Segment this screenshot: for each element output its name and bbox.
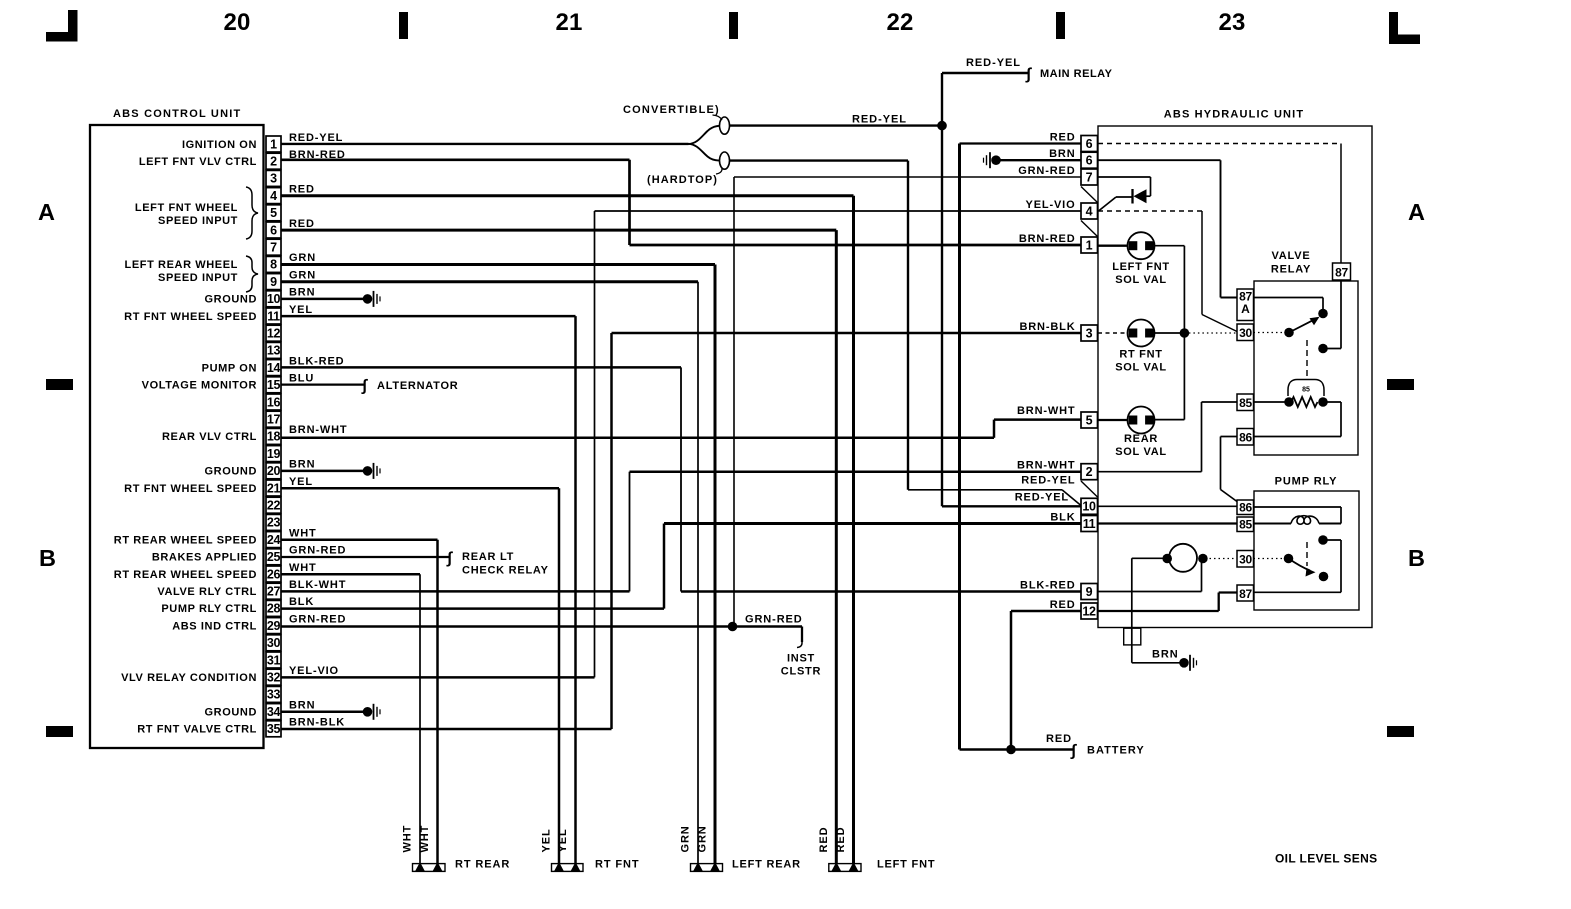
connector bubble HARDTOP [720, 152, 730, 169]
svg-text:12: 12 [267, 327, 281, 341]
svg-text:RT FNT WHEEL SPEED: RT FNT WHEEL SPEED [124, 311, 257, 323]
wire RED column 2 to LEFT FNT connector [835, 230, 838, 863]
svg-text:GRN-RED: GRN-RED [289, 545, 346, 557]
page corner bracket top-left [68, 10, 78, 41]
svg-text:MAIN RELAY: MAIN RELAY [1040, 68, 1113, 80]
svg-text:22: 22 [267, 499, 281, 513]
solenoid valve RT FNT SOL VAL [1098, 332, 1128, 334]
svg-text:6: 6 [1086, 137, 1093, 151]
svg-text:4: 4 [1086, 204, 1093, 218]
wire BRN inside to valve relay 87A [1098, 159, 1221, 161]
svg-text:LEFT REAR WHEEL: LEFT REAR WHEEL [125, 259, 239, 271]
junction dot sol valve bus [1180, 328, 1190, 338]
svg-text:SPEED INPUT: SPEED INPUT [158, 272, 238, 284]
svg-text:BRN-WHT: BRN-WHT [1017, 405, 1076, 417]
svg-text:BRN: BRN [289, 699, 315, 711]
svg-text:OIL LEVEL SENS: OIL LEVEL SENS [1275, 852, 1377, 866]
svg-text:31: 31 [267, 653, 281, 667]
valve relay NO contact dot [1318, 344, 1328, 354]
valve relay pin 87A box [1237, 289, 1254, 321]
pump relay pivot dot [1284, 554, 1294, 564]
svg-text:LEFT REAR: LEFT REAR [732, 859, 801, 871]
curl from CONVERTIBLE label to bubble [713, 115, 723, 120]
pump motor M1 circle [1169, 544, 1197, 572]
svg-text:GROUND: GROUND [205, 706, 258, 718]
valve relay switch arm with arrowhead [1289, 320, 1314, 333]
svg-text:BLK-WHT: BLK-WHT [289, 579, 346, 591]
svg-text:11: 11 [1083, 517, 1096, 531]
svg-text:SOL VAL: SOL VAL [1115, 362, 1167, 374]
solenoid valve LEFT FNT SOL VAL [1098, 245, 1128, 247]
svg-text:14: 14 [267, 361, 281, 375]
connector LEFT FNT bracket [829, 864, 861, 872]
ground at ctrl pin 34 [363, 707, 373, 717]
svg-text:RT FNT WHEEL SPEED: RT FNT WHEEL SPEED [124, 483, 257, 495]
svg-text:9: 9 [270, 275, 277, 289]
wire YEL-VIO column up [594, 211, 596, 677]
wire BRN-BLK column up [610, 333, 613, 729]
svg-text:RED: RED [1046, 733, 1072, 745]
connector RT REAR terminal triangles [415, 862, 425, 871]
svg-text:LEFT FNT WHEEL: LEFT FNT WHEEL [135, 202, 238, 214]
connector RT FNT terminal triangles [554, 862, 564, 871]
brace pins 8-9 [246, 256, 258, 292]
svg-text:86: 86 [1239, 431, 1252, 445]
svg-text:BLU: BLU [289, 373, 314, 385]
ground at ctrl pin 10 [363, 294, 373, 304]
fork to convertible branch [689, 126, 720, 144]
wire ctrl pin 35 BRN-BLK [281, 728, 612, 731]
svg-text:CLSTR: CLSTR [781, 666, 821, 678]
valve relay 87 wire to NO contact [1340, 280, 1342, 349]
pump relay switch arm with arrowhead [1289, 559, 1311, 571]
pump relay 30 dotted wire to pivot [1254, 558, 1289, 560]
wire RT FNT sol val to bus [1154, 332, 1185, 334]
svg-text:8: 8 [270, 258, 277, 272]
hyd unit pin 7 box [1081, 169, 1098, 185]
svg-text:YEL-VIO: YEL-VIO [289, 665, 339, 677]
hyd unit pin 4 box [1081, 203, 1098, 219]
svg-text:17: 17 [267, 413, 281, 427]
svg-text:RT FNT VALVE CTRL: RT FNT VALVE CTRL [137, 724, 257, 736]
svg-text:24: 24 [267, 533, 281, 547]
svg-text:RED: RED [818, 827, 830, 853]
pump relay pin 30 box [1237, 551, 1254, 568]
svg-text:BRN: BRN [1049, 148, 1075, 160]
connector bubble CONVERTIBLE [720, 117, 730, 134]
svg-text:CONVERTIBLE): CONVERTIBLE) [623, 104, 720, 116]
svg-text:RELAY: RELAY [1271, 264, 1311, 276]
svg-text:SOL VAL: SOL VAL [1115, 446, 1167, 458]
svg-text:RED: RED [835, 827, 847, 853]
svg-text:YEL: YEL [289, 476, 313, 488]
pump relay 86 internal wire [1254, 506, 1342, 508]
svg-text:RED-YEL: RED-YEL [289, 132, 343, 144]
wire BLK column up [663, 524, 666, 609]
wire hyd pin 12 to pump 87 jog [1098, 610, 1219, 612]
wire ctrl pin 8 GRN [281, 263, 715, 266]
svg-text:1: 1 [270, 137, 277, 151]
svg-text:12: 12 [1082, 604, 1096, 618]
wire BRN-RED column [628, 160, 631, 245]
solenoid valve REAR SOL VAL [1098, 419, 1128, 421]
right margin tick upper [1387, 379, 1414, 390]
wire REAR sol val to bus [1154, 419, 1185, 421]
svg-text:87: 87 [1239, 587, 1252, 601]
svg-text:A: A [1408, 199, 1425, 225]
battery feed wire [960, 748, 1074, 751]
wire RED-YEL hardtop branch [730, 159, 909, 161]
svg-text:20: 20 [223, 9, 250, 36]
svg-text:30: 30 [267, 636, 281, 650]
svg-text:BLK: BLK [1050, 511, 1075, 523]
wire to BRN ground [1132, 662, 1181, 664]
junction dot battery/hyd12 [1006, 745, 1016, 755]
wire GRN column to LEFT REAR connector [714, 265, 717, 864]
svg-text:RED-YEL: RED-YEL [966, 57, 1021, 69]
svg-text:VOLTAGE MONITOR: VOLTAGE MONITOR [142, 380, 257, 392]
wire ctrl pin 4 RED [281, 194, 854, 197]
pump relay pin 86 box [1237, 500, 1254, 515]
svg-text:85: 85 [1239, 518, 1252, 532]
svg-text:BLK-RED: BLK-RED [1020, 579, 1075, 591]
right margin tick lower [1387, 726, 1414, 737]
svg-text:ABS HYDRAULIC UNIT: ABS HYDRAULIC UNIT [1164, 109, 1304, 121]
svg-text:RT FNT: RT FNT [1119, 349, 1162, 361]
wire valve relay 86 to pump relay 86 [1221, 436, 1238, 438]
svg-text:11: 11 [267, 309, 280, 323]
wire RED hyd pin 12 column [1010, 611, 1013, 750]
svg-text:RED: RED [289, 218, 315, 230]
connector LEFT FNT terminal triangles [832, 862, 842, 871]
svg-text:YEL-VIO: YEL-VIO [1026, 199, 1076, 211]
pump relay coil loops [1254, 523, 1292, 525]
hyd unit pin 9 box [1081, 584, 1098, 600]
valve relay 30 dotted wire to pivot [1254, 332, 1290, 334]
svg-text:2: 2 [1086, 465, 1093, 479]
svg-text:VLV RELAY CONDITION: VLV RELAY CONDITION [121, 672, 257, 684]
diode D1 triangle [1134, 189, 1147, 203]
wire main relay column down to hyd pin 10 RED-YEL [941, 126, 943, 507]
left margin tick upper [46, 379, 73, 390]
svg-text:LEFT FNT: LEFT FNT [877, 859, 935, 871]
brace pins 4-6 [246, 187, 258, 239]
hook at inst cluster wire end [797, 642, 802, 648]
connector LEFT REAR bracket [691, 864, 723, 872]
pump relay pin 87 box [1237, 585, 1254, 601]
svg-text:85: 85 [1302, 387, 1310, 394]
svg-text:YEL: YEL [289, 304, 313, 316]
wire ctrl pin 25 GRN-RED to rear light check relay [281, 556, 449, 558]
valve relay 85 wire to coil [1254, 401, 1290, 403]
svg-text:23: 23 [267, 516, 281, 530]
svg-text:GRN-RED: GRN-RED [1018, 165, 1075, 177]
svg-text:34: 34 [267, 705, 281, 719]
valve relay pin 86 box [1237, 429, 1254, 446]
svg-text:BRN: BRN [1152, 649, 1179, 661]
hyd unit pin 12 box [1081, 603, 1098, 619]
svg-text:REAR: REAR [1124, 433, 1158, 445]
wire GRN-RED column from hyd pin 7 [733, 177, 735, 627]
ABS control unit pin strip cells 1-35 [266, 136, 281, 152]
wire ctrl pin 15 BLU to alternator [281, 383, 364, 385]
wire BRN-WHT jog up [993, 420, 996, 438]
valve relay coil to 86 wire [1323, 401, 1341, 403]
svg-text:4: 4 [270, 189, 277, 203]
valve relay 87A wire to upper contact [1254, 297, 1324, 299]
svg-text:27: 27 [267, 585, 281, 599]
svg-text:22: 22 [886, 9, 913, 36]
svg-text:BRN-BLK: BRN-BLK [289, 717, 345, 729]
svg-text:ABS CONTROL UNIT: ABS CONTROL UNIT [113, 108, 241, 120]
svg-text:VALVE RLY CTRL: VALVE RLY CTRL [157, 586, 257, 598]
svg-text:(HARDTOP): (HARDTOP) [647, 174, 718, 186]
svg-text:21: 21 [555, 9, 582, 36]
wire RED battery column [958, 144, 961, 750]
svg-text:SOL VAL: SOL VAL [1115, 274, 1167, 286]
wire RED column to LEFT FNT connector [852, 196, 855, 863]
wire GRN-RED to inst cluster drop [733, 625, 803, 628]
wire BLK-RED column [680, 367, 682, 591]
svg-text:GRN: GRN [289, 269, 316, 281]
wire diode to hyd pin 4 [1116, 196, 1133, 198]
left margin tick lower [46, 726, 73, 737]
ruler tick 22/23 [1056, 12, 1065, 39]
svg-text:BRN: BRN [289, 287, 315, 299]
svg-text:30: 30 [1239, 326, 1252, 340]
ground at hyd pin 6b [991, 155, 1001, 165]
pump relay upper contact dot [1318, 535, 1328, 545]
wire motor to ground via case connector [1132, 557, 1167, 559]
wire ctrl pin 26 WHT [281, 573, 420, 576]
ruler tick 20/21 [399, 12, 408, 39]
hyd unit pin 10 box [1081, 498, 1098, 514]
svg-text:10: 10 [1082, 500, 1096, 514]
valve relay coil cover hat [1288, 380, 1324, 397]
wire BLK-RED to hyd pin 9 [681, 590, 1081, 593]
svg-text:86: 86 [1239, 501, 1252, 515]
svg-text:6: 6 [1086, 154, 1093, 168]
svg-text:CHECK RELAY: CHECK RELAY [462, 565, 549, 577]
hyd unit pin 3 box [1081, 325, 1098, 341]
page corner bracket top-right [1389, 12, 1398, 40]
pump relay pin 85 box [1237, 517, 1254, 532]
svg-text:RED-YEL: RED-YEL [1021, 475, 1075, 487]
svg-text:BATTERY: BATTERY [1087, 745, 1145, 757]
svg-text:7: 7 [1086, 170, 1093, 184]
wire ctrl pin 11 YEL [281, 315, 576, 318]
svg-text:GRN-RED: GRN-RED [745, 614, 803, 626]
svg-text:YEL: YEL [541, 828, 553, 852]
svg-text:3: 3 [270, 172, 277, 186]
svg-text:REAR LT: REAR LT [462, 551, 514, 563]
junction dot main relay branch [937, 121, 947, 131]
svg-text:GRN-RED: GRN-RED [289, 613, 346, 625]
valve relay box [1254, 281, 1358, 455]
svg-text:RT REAR WHEEL SPEED: RT REAR WHEEL SPEED [114, 569, 257, 581]
svg-text:REAR VLV CTRL: REAR VLV CTRL [162, 431, 257, 443]
svg-text:RT REAR WHEEL SPEED: RT REAR WHEEL SPEED [114, 534, 257, 546]
svg-text:19: 19 [267, 447, 281, 461]
wire ctrl pin 29 GRN-RED to junction [281, 625, 733, 628]
svg-text:85: 85 [1239, 396, 1252, 410]
svg-text:3: 3 [1086, 326, 1093, 340]
wire BLK-WHT to hyd pin 2 [630, 470, 1082, 473]
svg-text:A: A [38, 199, 55, 225]
svg-text:13: 13 [267, 344, 281, 358]
motor terminal dots [1162, 554, 1172, 564]
wire BRN-RED to hyd pin 1 [630, 244, 1082, 247]
svg-text:15: 15 [267, 378, 281, 392]
wire to valve relay 30 column [1201, 211, 1203, 315]
svg-text:PUMP RLY: PUMP RLY [1275, 476, 1338, 488]
wire BRN hyd pin 6b to ground [996, 159, 1081, 161]
svg-text:SPEED INPUT: SPEED INPUT [158, 215, 238, 227]
svg-text:B: B [39, 545, 56, 571]
case connector box below unit [1124, 628, 1141, 645]
svg-text:35: 35 [267, 722, 281, 736]
ABS hydraulic unit box [1098, 126, 1372, 628]
svg-text:26: 26 [267, 567, 281, 581]
wire valve relay 85 to hyd pin 2 inside [1098, 471, 1202, 473]
svg-text:2: 2 [270, 155, 277, 169]
svg-text:6: 6 [270, 223, 277, 237]
svg-text:5: 5 [270, 206, 277, 220]
svg-text:BRN-RED: BRN-RED [1019, 233, 1076, 245]
valve relay pin 87 box [1333, 263, 1351, 280]
svg-text:BLK-RED: BLK-RED [289, 355, 344, 367]
wire ctrl pin 14 BLK-RED [281, 366, 681, 369]
svg-text:21: 21 [267, 481, 281, 495]
svg-text:GROUND: GROUND [205, 294, 258, 306]
svg-text:RED: RED [1050, 599, 1076, 611]
svg-text:IGNITION ON: IGNITION ON [182, 139, 257, 151]
wire ctrl pin 20 BRN to ground [281, 470, 366, 473]
svg-text:WHT: WHT [402, 825, 414, 853]
hyd unit pin 1 box [1081, 237, 1098, 253]
hyd unit pin 6 box [1081, 136, 1098, 152]
svg-text:LEFT FNT: LEFT FNT [1112, 261, 1170, 273]
ABS control unit box [90, 125, 264, 748]
svg-text:32: 32 [267, 671, 281, 685]
svg-text:GRN: GRN [289, 252, 316, 264]
wire ctrl pin 9 GRN [281, 280, 698, 283]
svg-text:WHT: WHT [419, 825, 431, 853]
wire hyd pin 9 to motor [1098, 591, 1202, 593]
svg-text:LEFT FNT VLV CTRL: LEFT FNT VLV CTRL [139, 156, 257, 168]
svg-text:GROUND: GROUND [205, 466, 258, 478]
wire RED dashed inside unit to valve relay 87 [1098, 143, 1341, 145]
svg-text:BRN: BRN [289, 459, 315, 471]
wire hyd pin 10 to pump 86 [1098, 505, 1237, 507]
svg-text:RED: RED [1050, 131, 1076, 143]
wire ctrl pin 32 YEL-VIO [281, 676, 595, 679]
svg-text:29: 29 [267, 619, 281, 633]
svg-text:WHT: WHT [289, 527, 317, 539]
wire ctrl pin 27 BLK-WHT [281, 590, 630, 593]
svg-text:30: 30 [1239, 553, 1252, 567]
svg-text:7: 7 [270, 241, 277, 255]
pump relay NO contact dot [1319, 572, 1329, 582]
wire ctrl pin 18 BRN-WHT [281, 437, 994, 440]
svg-text:BRN-WHT: BRN-WHT [1017, 460, 1076, 472]
svg-text:PUMP ON: PUMP ON [202, 362, 257, 374]
ground at hyd unit bottom [1179, 658, 1189, 668]
svg-text:33: 33 [267, 688, 281, 702]
wire hyd pin 11 to pump 85 [1098, 522, 1237, 524]
connector LEFT REAR terminal triangles [693, 862, 703, 871]
svg-text:RT REAR: RT REAR [455, 859, 510, 871]
svg-text:ALTERNATOR: ALTERNATOR [377, 380, 458, 392]
wire RED-YEL convertible branch to junction [730, 124, 943, 126]
svg-text:VALVE: VALVE [1271, 250, 1310, 262]
wire sol valve bus [1154, 245, 1185, 247]
wire ctrl pin 6 RED [281, 229, 836, 232]
svg-text:RED-YEL: RED-YEL [1015, 492, 1069, 504]
svg-text:PUMP RLY CTRL: PUMP RLY CTRL [161, 603, 257, 615]
svg-text:5: 5 [1086, 413, 1093, 427]
curl from HARDTOP label to bubble [716, 168, 722, 174]
svg-text:BRN-WHT: BRN-WHT [289, 424, 348, 436]
wire ctrl pin 2 BRN-RED [281, 158, 630, 161]
diode D1 cathode bar [1131, 189, 1133, 204]
ground at ctrl pin 20 [363, 466, 373, 476]
wire ctrl pin 28 BLK [281, 607, 664, 610]
svg-text:RED: RED [289, 183, 315, 195]
svg-text:20: 20 [267, 464, 281, 478]
wire BRN-WHT to hyd pin 5 [994, 418, 1081, 421]
valve relay upper contact dot [1318, 309, 1328, 319]
wire WHT column 2 to RT REAR connector [419, 574, 421, 863]
svg-text:RED-YEL: RED-YEL [852, 113, 907, 125]
svg-text:A: A [1241, 302, 1250, 316]
wire GRN column 2 to LEFT REAR connector [697, 282, 699, 863]
wire RED hyd pin 6 from battery column [960, 142, 1082, 144]
wire YEL-VIO hyd pin 4 dashed inside [1098, 210, 1202, 212]
connector RT REAR bracket [413, 864, 446, 872]
ruler tick 21/22 [729, 12, 738, 39]
svg-text:YEL: YEL [557, 828, 569, 852]
wire GRN-RED hyd pin 7 inside [1098, 176, 1151, 178]
pump relay box [1254, 491, 1359, 610]
hyd unit pin 11 box [1081, 516, 1098, 532]
wire BRN-BLK to hyd pin 3 [612, 332, 1082, 335]
svg-text:87: 87 [1335, 265, 1348, 279]
svg-text:28: 28 [267, 602, 281, 616]
fork to hardtop branch [689, 144, 720, 161]
wire ctrl pin 24 WHT [281, 539, 438, 542]
wire ctrl pin 10 BRN to ground [281, 298, 366, 301]
svg-text:BLK: BLK [289, 596, 314, 608]
pump relay mechanical link dashed [1306, 542, 1308, 566]
valve relay mechanical link dashed [1306, 340, 1308, 377]
svg-text:10: 10 [267, 292, 281, 306]
no-connect slash below hyd pin 7 [1081, 187, 1098, 203]
no-connect slash below hyd pin 4 [1081, 221, 1098, 237]
hyd unit pin 6 box [1081, 152, 1098, 168]
wire hardtop column down [907, 161, 909, 490]
svg-text:GRN: GRN [680, 825, 692, 852]
wire YEL column 2 to RT FNT connector [558, 488, 561, 863]
svg-text:B: B [1408, 545, 1425, 571]
svg-text:INST: INST [787, 653, 815, 665]
no-connect slash above hyd pin 10 [1081, 481, 1098, 497]
svg-text:BRAKES APPLIED: BRAKES APPLIED [152, 552, 257, 564]
junction dot GRN-RED inst cluster [728, 622, 738, 632]
svg-text:ABS IND CTRL: ABS IND CTRL [172, 620, 257, 632]
svg-text:WHT: WHT [289, 562, 317, 574]
valve relay pivot dot [1284, 328, 1294, 338]
